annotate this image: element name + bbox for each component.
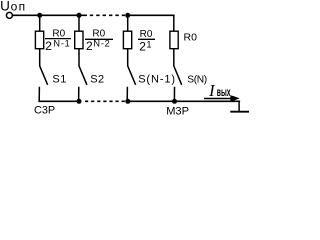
switch S1 arm (40, 66, 48, 85)
svg-text:вых: вых (217, 85, 231, 99)
node junction dot top col1 (37, 13, 42, 18)
wire bottom bus dashed segment (85, 100, 126, 102)
wire col2 top (78, 15, 80, 31)
wire col1 switch bottom (38, 87, 40, 102)
svg-text:2: 2 (86, 39, 93, 53)
svg-text:R0: R0 (184, 32, 198, 44)
svg-text:1: 1 (146, 39, 151, 49)
ground (230, 111, 249, 113)
wire col4 top (173, 15, 175, 32)
wire col3 top (127, 15, 129, 31)
label Iвых (208, 81, 231, 100)
svg-text:S(N): S(N) (187, 74, 207, 85)
wire top bus dashed segment (90, 14, 125, 16)
node junction dot bottom col3 (125, 99, 130, 104)
wire col3 to switch (127, 49, 129, 66)
terminal Uоп input (6, 12, 12, 18)
node junction dot top col3 (125, 13, 130, 18)
svg-text:N-1: N-1 (53, 39, 70, 49)
wire col1 top (39, 15, 41, 31)
node junction dot bottom col4 (172, 99, 177, 104)
wire col4 switch bottom (173, 87, 175, 102)
svg-text:S2: S2 (90, 73, 104, 85)
svg-text:Uоп: Uоп (0, 0, 26, 13)
svg-text:С3Р: С3Р (34, 105, 55, 116)
wire col2 to switch (78, 49, 80, 66)
arrow Iвых current direction (204, 98, 232, 100)
node junction dot bottom col2 (77, 99, 82, 104)
wire col4 to switch (173, 49, 175, 66)
wire col1 to switch (39, 49, 41, 66)
wire bottom bus right solid segment (128, 100, 240, 102)
resistor R0/2^(N-1) (35, 31, 43, 49)
svg-text:N-2: N-2 (93, 39, 110, 49)
resistor R0 (170, 31, 178, 49)
svg-text:2: 2 (45, 39, 52, 53)
wire top bus solid segment (12, 14, 87, 16)
svg-text:2: 2 (139, 40, 146, 54)
wire output down to ground (238, 101, 240, 112)
label R0/2^(N-1) value (45, 29, 71, 53)
resistor R0/2^1 (123, 31, 131, 49)
svg-text:S1: S1 (52, 73, 66, 85)
node junction dot top col2 (77, 13, 82, 18)
wire col3 switch bottom (126, 87, 128, 102)
label R0/2^1 value (138, 29, 155, 54)
wire col2 switch bottom (78, 87, 80, 102)
switch S(N) arm (174, 66, 182, 85)
svg-text:S(N-1): S(N-1) (138, 73, 176, 85)
svg-text:М3Р: М3Р (166, 106, 189, 116)
resistor R0/2^(N-2) (75, 31, 83, 49)
switch S(N-1) arm (128, 66, 136, 85)
wire top bus right solid segment (126, 14, 175, 16)
wire bottom bus left solid segment (38, 100, 79, 102)
switch S2 arm (79, 66, 87, 85)
label R0/2^(N-2) value (85, 29, 113, 53)
